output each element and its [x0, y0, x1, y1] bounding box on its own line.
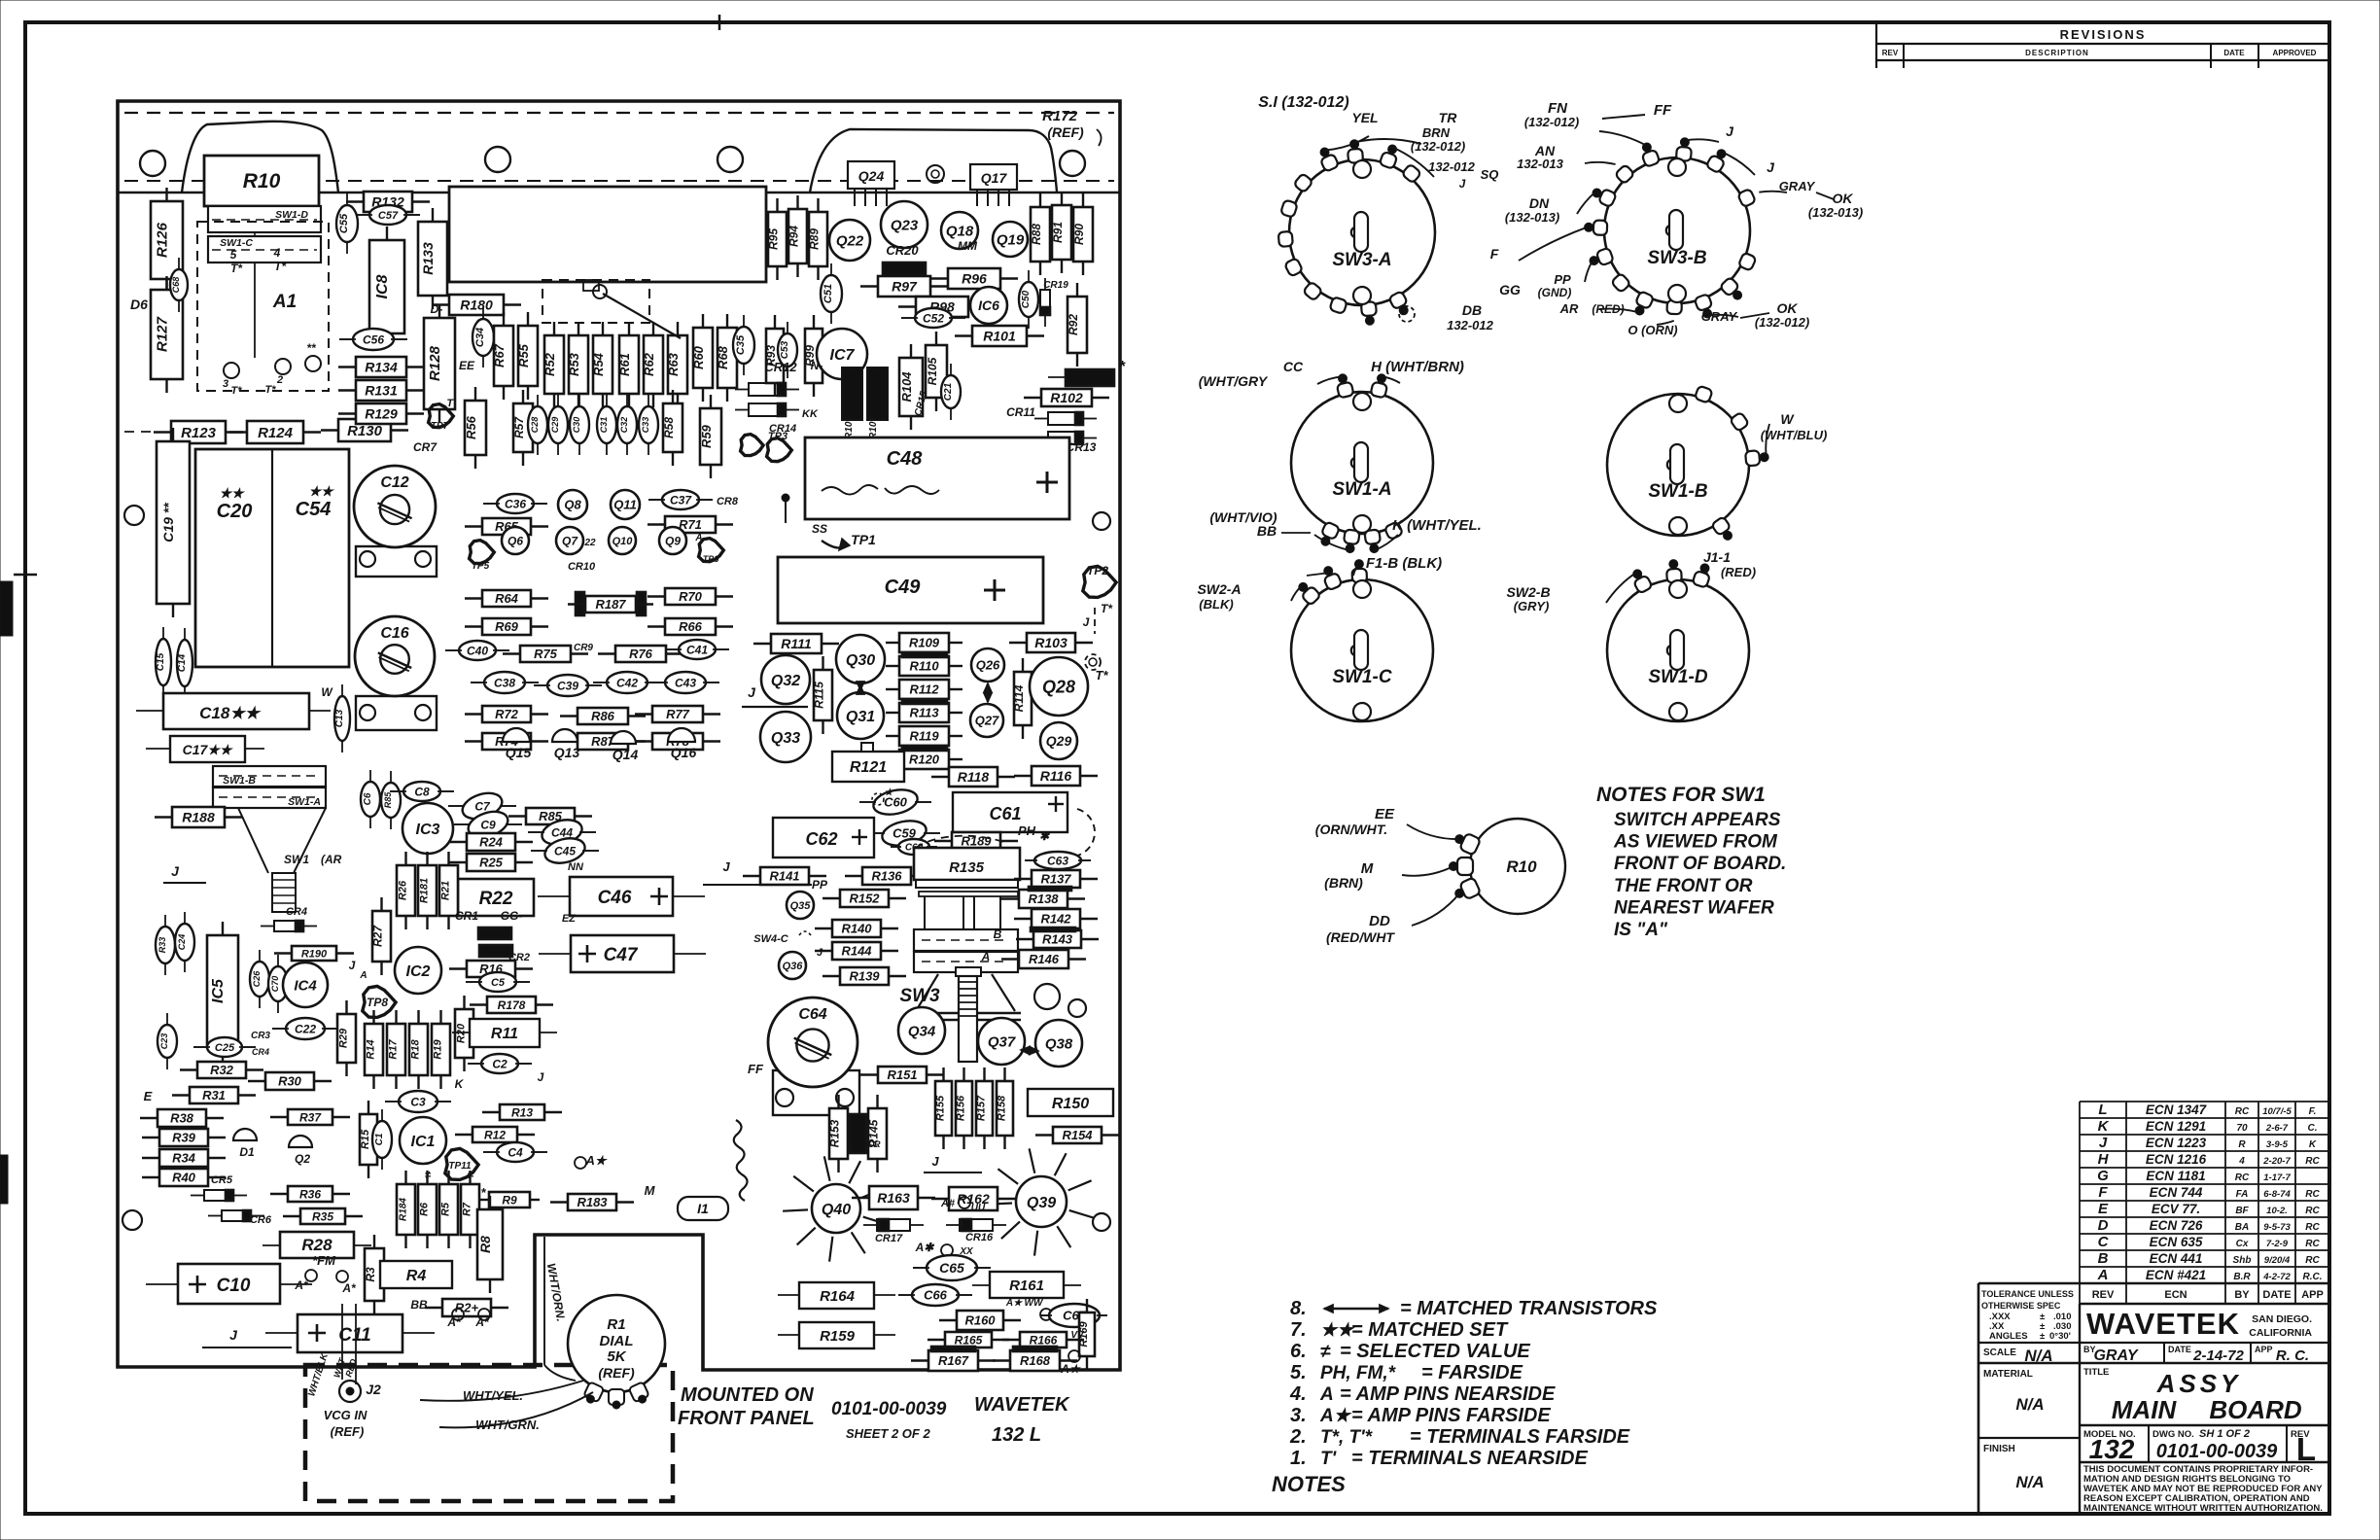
svg-text:IC1: IC1 — [411, 1134, 436, 1150]
svg-text:R.C.: R.C. — [2303, 1272, 2323, 1282]
svg-text:J: J — [1767, 159, 1775, 175]
svg-text:2-14-72: 2-14-72 — [2192, 1347, 2244, 1364]
svg-text:SWITCH APPEARS: SWITCH APPEARS — [1614, 810, 1781, 830]
svg-text:R104: R104 — [899, 371, 914, 402]
svg-text:M: M — [645, 1183, 656, 1198]
svg-text:WAVETEK: WAVETEK — [974, 1394, 1070, 1416]
svg-text:DB: DB — [1462, 302, 1482, 318]
svg-text:RC: RC — [2305, 1156, 2320, 1167]
svg-text:GG-: GG- — [501, 909, 523, 923]
svg-text:R38: R38 — [170, 1111, 194, 1126]
svg-text:R143: R143 — [1042, 932, 1073, 947]
svg-text:C6: C6 — [363, 792, 373, 805]
svg-text:SW1-B: SW1-B — [223, 775, 256, 787]
svg-text:R129: R129 — [365, 406, 398, 422]
svg-text:C31: C31 — [599, 417, 609, 434]
svg-text:PH, FM,*: PH, FM,* — [1320, 1363, 1397, 1383]
svg-text:R31: R31 — [202, 1088, 226, 1102]
svg-text:C.: C. — [2308, 1123, 2318, 1134]
svg-text:R130: R130 — [347, 423, 383, 439]
svg-text:C51: C51 — [822, 284, 834, 303]
svg-text:C17★★: C17★★ — [183, 742, 234, 757]
svg-text:R6: R6 — [419, 1202, 431, 1216]
svg-text:R68: R68 — [716, 345, 730, 369]
svg-text:R62: R62 — [642, 352, 656, 376]
svg-text:132 L: 132 L — [992, 1424, 1041, 1446]
svg-text:Q33: Q33 — [771, 730, 800, 747]
svg-text:REV: REV — [2092, 1289, 2115, 1301]
svg-text:SAN DIEGO.: SAN DIEGO. — [2252, 1313, 2312, 1325]
svg-text:= AMP PINS NEARSIDE: = AMP PINS NEARSIDE — [1340, 1383, 1556, 1405]
svg-text:BY: BY — [2234, 1289, 2250, 1301]
svg-text:Q39: Q39 — [1027, 1195, 1056, 1211]
svg-text:C47: C47 — [604, 945, 639, 965]
svg-text:R36: R36 — [299, 1187, 321, 1201]
svg-text:R34: R34 — [172, 1151, 196, 1166]
svg-text:ECN 1216: ECN 1216 — [2146, 1152, 2207, 1167]
svg-text:CR6: CR6 — [250, 1214, 272, 1226]
svg-text:(132-012): (132-012) — [1755, 315, 1809, 330]
svg-text:132-013: 132-013 — [1517, 157, 1563, 171]
svg-text:C34: C34 — [474, 328, 486, 347]
svg-text:≠: ≠ — [425, 1170, 432, 1181]
svg-text:TOLERANCE UNLESS: TOLERANCE UNLESS — [1981, 1289, 2074, 1299]
svg-text:A1: A1 — [272, 292, 297, 312]
svg-text:R67: R67 — [492, 343, 507, 367]
svg-text:MOUNTED ON: MOUNTED ON — [681, 1384, 814, 1406]
svg-text:132: 132 — [2089, 1434, 2135, 1464]
svg-text:R163: R163 — [877, 1190, 910, 1206]
svg-text:SQ: SQ — [1481, 167, 1499, 182]
svg-text:KK: KK — [802, 408, 819, 420]
svg-text:C11: C11 — [338, 1325, 370, 1346]
svg-text:3.: 3. — [1290, 1405, 1307, 1426]
svg-text:J: J — [1459, 177, 1466, 191]
svg-text:J: J — [722, 859, 730, 874]
svg-text:7.: 7. — [1290, 1319, 1307, 1341]
svg-text:C12: C12 — [380, 474, 408, 491]
svg-text:(WHT/GRY: (WHT/GRY — [1199, 373, 1269, 389]
svg-text:RC: RC — [2305, 1255, 2320, 1266]
svg-text:J: J — [931, 1154, 939, 1169]
svg-text:SW1-D: SW1-D — [1648, 667, 1708, 687]
svg-text:C49: C49 — [885, 577, 922, 598]
svg-text:SS: SS — [812, 522, 827, 536]
svg-text:4-2-72: 4-2-72 — [2262, 1272, 2291, 1282]
svg-text:R113: R113 — [909, 706, 939, 720]
svg-text:R3: R3 — [364, 1267, 377, 1282]
svg-text:C56: C56 — [363, 332, 384, 346]
svg-text:C19 **: C19 ** — [160, 503, 176, 542]
svg-text:Q10: Q10 — [612, 536, 634, 547]
svg-text:R91: R91 — [1051, 222, 1065, 243]
svg-text:R5: R5 — [440, 1202, 452, 1216]
svg-text:C68: C68 — [171, 277, 181, 294]
svg-text:SW1: SW1 — [284, 853, 309, 866]
svg-text:AR: AR — [1559, 301, 1579, 316]
svg-text:10/7/-5: 10/7/-5 — [2262, 1106, 2292, 1117]
svg-text:1-17-7: 1-17-7 — [2263, 1172, 2291, 1183]
svg-text:R11: R11 — [491, 1026, 518, 1042]
svg-text:C20: C20 — [217, 501, 253, 522]
svg-text:IC8: IC8 — [374, 274, 391, 298]
svg-text:R1: R1 — [607, 1316, 625, 1333]
svg-text:GRAY: GRAY — [2093, 1347, 2138, 1364]
svg-text:R22: R22 — [479, 889, 513, 909]
svg-text:N/A: N/A — [2015, 1395, 2044, 1414]
svg-text:C50: C50 — [1021, 290, 1032, 308]
svg-text:TP3: TP3 — [768, 431, 787, 442]
svg-text:R159: R159 — [820, 1328, 856, 1345]
svg-text:BB: BB — [1257, 523, 1277, 539]
svg-text:C46: C46 — [598, 888, 632, 908]
svg-text:R76: R76 — [629, 647, 653, 661]
svg-text:C10: C10 — [217, 1276, 251, 1296]
svg-text:CR10: CR10 — [568, 561, 596, 573]
svg-text:A: A — [2097, 1267, 2109, 1283]
svg-text:T*: T* — [265, 384, 277, 396]
svg-text:R144: R144 — [841, 944, 872, 959]
svg-text:WHT/YEL.: WHT/YEL. — [463, 1388, 523, 1403]
svg-text:Q13: Q13 — [554, 745, 580, 760]
svg-text:CR20: CR20 — [886, 243, 919, 258]
svg-text:R7: R7 — [462, 1202, 473, 1216]
svg-text:ECV 77.: ECV 77. — [2152, 1202, 2200, 1216]
svg-text:R187: R187 — [595, 597, 626, 612]
svg-text:CR11: CR11 — [1006, 405, 1035, 419]
svg-text:R139: R139 — [849, 969, 880, 984]
svg-text:Q2: Q2 — [295, 1152, 310, 1166]
svg-text:C38: C38 — [494, 676, 515, 689]
svg-text:RC: RC — [2305, 1239, 2320, 1249]
svg-text:Q34: Q34 — [908, 1023, 936, 1039]
svg-text:★★: ★★ — [219, 485, 246, 501]
svg-text:2.: 2. — [1289, 1426, 1307, 1448]
svg-text:5K: 5K — [607, 1348, 626, 1365]
svg-text:R97: R97 — [892, 279, 918, 295]
svg-text:RC: RC — [2235, 1172, 2250, 1183]
svg-text:Q11: Q11 — [613, 498, 637, 512]
svg-text:J: J — [748, 684, 756, 700]
svg-text:ECN 1223: ECN 1223 — [2146, 1136, 2207, 1150]
svg-text:R166: R166 — [1030, 1333, 1058, 1347]
svg-text:SW1-B: SW1-B — [1648, 481, 1708, 502]
svg-text:R137: R137 — [1040, 872, 1071, 887]
svg-text:R21: R21 — [440, 881, 452, 900]
svg-text:C14: C14 — [177, 653, 188, 672]
svg-text:BB: BB — [410, 1298, 428, 1312]
svg-text:R63: R63 — [666, 352, 681, 376]
svg-text:R70: R70 — [679, 589, 703, 604]
svg-text:ECN 726: ECN 726 — [2150, 1218, 2203, 1233]
svg-text:CR3: CR3 — [251, 1031, 270, 1041]
svg-text:Cx: Cx — [2236, 1239, 2249, 1249]
svg-text:B.R: B.R — [2233, 1272, 2251, 1282]
svg-text:8.: 8. — [1290, 1298, 1307, 1319]
svg-text:Q29: Q29 — [1046, 733, 1072, 749]
svg-text:C45: C45 — [554, 844, 576, 857]
svg-text:CR5: CR5 — [211, 1174, 233, 1186]
svg-text:SW1-C: SW1-C — [1332, 667, 1392, 687]
svg-text:C4: C4 — [507, 1145, 523, 1159]
svg-text:K (WHT/YEL.: K (WHT/YEL. — [1392, 517, 1482, 534]
svg-text:NOTES FOR SW1: NOTES FOR SW1 — [1596, 784, 1766, 806]
svg-text:T*, T'*: T*, T'* — [1320, 1427, 1374, 1448]
svg-text:R120: R120 — [909, 752, 940, 767]
svg-text:R69: R69 — [495, 619, 519, 634]
svg-text:5: 5 — [230, 248, 237, 262]
svg-text:APP: APP — [2301, 1289, 2324, 1301]
svg-text:(REF): (REF) — [331, 1424, 365, 1439]
svg-text:SW3-A: SW3-A — [1332, 250, 1391, 270]
svg-text:R158: R158 — [997, 1095, 1008, 1121]
svg-text:Q27: Q27 — [975, 714, 999, 728]
svg-text:*: * — [1119, 359, 1126, 375]
svg-text:C32: C32 — [619, 417, 629, 434]
svg-text:2-6-7: 2-6-7 — [2265, 1123, 2289, 1134]
svg-text:R126: R126 — [155, 222, 171, 258]
svg-text:R154: R154 — [1062, 1128, 1093, 1142]
svg-text:= MATCHED TRANSISTORS: = MATCHED TRANSISTORS — [1400, 1298, 1658, 1319]
svg-text:R156: R156 — [956, 1095, 967, 1121]
svg-text:R77: R77 — [666, 707, 690, 721]
svg-text:ECN 1347: ECN 1347 — [2146, 1102, 2208, 1117]
svg-text:R90: R90 — [1072, 224, 1086, 245]
svg-text:R105: R105 — [926, 357, 939, 385]
svg-text:T': T' — [446, 398, 456, 409]
svg-text:R128: R128 — [427, 345, 443, 381]
svg-text:R19: R19 — [433, 1039, 444, 1060]
svg-text:SW3: SW3 — [899, 986, 940, 1006]
svg-text:A: A — [981, 950, 991, 963]
svg-text:= FARSIDE: = FARSIDE — [1421, 1362, 1523, 1383]
svg-text:R14: R14 — [366, 1039, 377, 1059]
svg-text:BRN: BRN — [1422, 125, 1451, 140]
svg-text:R96: R96 — [962, 271, 987, 287]
svg-text:I1: I1 — [697, 1201, 709, 1216]
svg-text:C8: C8 — [414, 785, 430, 798]
svg-text:R52: R52 — [542, 352, 557, 376]
svg-text:C21: C21 — [943, 382, 954, 401]
svg-text:R25: R25 — [479, 856, 504, 870]
svg-text:Q18: Q18 — [946, 223, 974, 239]
svg-text:Q32: Q32 — [771, 673, 800, 689]
svg-text:C33: C33 — [641, 417, 650, 434]
svg-text:(132-012): (132-012) — [1524, 115, 1579, 129]
svg-text:A★: A★ — [1060, 1362, 1082, 1376]
svg-text:Q26: Q26 — [976, 658, 1000, 673]
svg-text:G: G — [2097, 1168, 2109, 1184]
svg-text:R181: R181 — [419, 878, 431, 903]
svg-text:C25: C25 — [215, 1042, 235, 1054]
svg-text:R134: R134 — [365, 360, 398, 375]
svg-text:E: E — [144, 1089, 153, 1103]
svg-text:C61: C61 — [989, 804, 1021, 823]
svg-text:CR4: CR4 — [252, 1047, 269, 1057]
svg-text:R29: R29 — [338, 1028, 350, 1048]
svg-text:OK: OK — [1833, 191, 1854, 206]
svg-text:A: A — [1319, 1384, 1334, 1405]
svg-text:3: 3 — [223, 378, 228, 390]
svg-text:B: B — [2098, 1250, 2109, 1267]
svg-text:= TERMINALS FARSIDE: = TERMINALS FARSIDE — [1410, 1426, 1630, 1448]
svg-text:Q19: Q19 — [997, 231, 1025, 248]
svg-text:R72: R72 — [495, 707, 519, 721]
svg-text:FF: FF — [748, 1062, 764, 1076]
svg-text:IS "A": IS "A" — [1614, 920, 1668, 940]
svg-text:DATE: DATE — [2223, 49, 2245, 57]
svg-text:132-012: 132-012 — [1428, 159, 1475, 174]
svg-text:R59: R59 — [699, 424, 714, 448]
svg-text:R: R — [2238, 1139, 2246, 1150]
svg-text:SW1-A: SW1-A — [1332, 479, 1391, 500]
svg-text:R155: R155 — [935, 1095, 947, 1121]
svg-text:TP6: TP6 — [703, 554, 720, 564]
svg-text:PP: PP — [1554, 272, 1571, 287]
svg-text:CR1: CR1 — [455, 909, 478, 923]
svg-text:FA: FA — [2236, 1189, 2249, 1200]
svg-text:SW2-B: SW2-B — [1506, 584, 1550, 600]
svg-text:R86: R86 — [591, 709, 615, 723]
svg-text:CR12: CR12 — [764, 360, 797, 374]
svg-text:C3: C3 — [410, 1095, 426, 1108]
svg-text:R92: R92 — [1067, 314, 1080, 335]
svg-text:Q40: Q40 — [822, 1202, 851, 1218]
svg-text:4.: 4. — [1289, 1383, 1307, 1405]
svg-text:Q37: Q37 — [988, 1033, 1016, 1050]
svg-text:R12: R12 — [484, 1128, 506, 1141]
svg-text:Q9: Q9 — [665, 534, 681, 547]
svg-text:FRONT PANEL: FRONT PANEL — [678, 1408, 815, 1429]
svg-text:NEAREST WAFER: NEAREST WAFER — [1614, 897, 1774, 918]
svg-text:(BRN): (BRN) — [1324, 875, 1363, 891]
svg-text:R140: R140 — [841, 922, 872, 936]
svg-text:SW2-A: SW2-A — [1197, 581, 1241, 597]
svg-text:R4: R4 — [406, 1268, 427, 1284]
svg-text:R109: R109 — [909, 636, 940, 650]
svg-text:FINISH: FINISH — [1983, 1444, 2015, 1454]
svg-text:APP: APP — [2255, 1345, 2273, 1354]
svg-text:R180: R180 — [460, 297, 493, 313]
svg-text:ANGLES: ANGLES — [1989, 1331, 2028, 1342]
svg-text:PH: PH — [1018, 823, 1036, 838]
svg-text:R13: R13 — [511, 1105, 533, 1119]
svg-text:R118: R118 — [958, 769, 990, 785]
svg-text:UU: UU — [971, 1203, 986, 1213]
svg-text:A*: A* — [474, 1315, 490, 1329]
svg-text:R30: R30 — [278, 1074, 302, 1089]
svg-text:SW4-C: SW4-C — [753, 933, 789, 945]
svg-text:CR8: CR8 — [717, 496, 739, 507]
svg-text:R88: R88 — [1030, 224, 1043, 245]
svg-text:R165: R165 — [955, 1333, 983, 1347]
svg-text:F: F — [1490, 246, 1499, 262]
svg-text:(132-013): (132-013) — [1808, 205, 1863, 220]
svg-text:OK: OK — [1777, 300, 1799, 316]
svg-text:J: J — [1726, 123, 1734, 139]
svg-text:R27: R27 — [371, 925, 385, 947]
svg-text:S.I (132-012): S.I (132-012) — [1258, 94, 1348, 111]
svg-text:C37: C37 — [670, 493, 692, 507]
svg-text:VV: VV — [1070, 1330, 1085, 1341]
svg-text:N/A: N/A — [2024, 1347, 2052, 1365]
svg-text:= AMP PINS FARSIDE: = AMP PINS FARSIDE — [1351, 1405, 1551, 1426]
svg-text:J2: J2 — [366, 1382, 381, 1397]
svg-text:TP1: TP1 — [851, 532, 876, 547]
svg-text:R119: R119 — [909, 729, 939, 744]
svg-text:9/20/4: 9/20/4 — [2264, 1255, 2291, 1266]
svg-text:C55: C55 — [338, 213, 350, 233]
svg-text:FF: FF — [1654, 102, 1672, 119]
svg-text:GG: GG — [1499, 282, 1521, 297]
svg-text:L: L — [2098, 1102, 2107, 1118]
svg-text:R184: R184 — [399, 1198, 409, 1221]
svg-text:A: A — [359, 970, 367, 981]
svg-text:C63: C63 — [1047, 854, 1068, 867]
svg-text:T*: T* — [230, 262, 243, 275]
svg-text:Q23: Q23 — [891, 217, 919, 233]
svg-text:6.: 6. — [1290, 1341, 1307, 1362]
svg-text:(RED/WHT: (RED/WHT — [1326, 929, 1395, 945]
svg-text:C5: C5 — [491, 977, 506, 989]
svg-text:RC: RC — [2305, 1189, 2320, 1200]
svg-text:J: J — [229, 1327, 238, 1343]
svg-text:R102: R102 — [1050, 390, 1083, 405]
svg-text:R151: R151 — [887, 1067, 917, 1082]
svg-text:WHT/GRN.: WHT/GRN. — [475, 1417, 540, 1432]
svg-text:N/A: N/A — [2015, 1473, 2044, 1491]
svg-text:TP8: TP8 — [367, 996, 388, 1009]
svg-text:J: J — [349, 959, 356, 972]
svg-text:ECN: ECN — [2164, 1289, 2187, 1301]
svg-text:C62: C62 — [805, 829, 837, 849]
svg-text:R95: R95 — [767, 228, 781, 250]
svg-text:2: 2 — [276, 374, 283, 386]
svg-text:C64: C64 — [798, 1006, 826, 1023]
svg-text:BOARD: BOARD — [2209, 1395, 2302, 1424]
svg-text:REVISIONS: REVISIONS — [2060, 27, 2147, 42]
svg-text:R115: R115 — [813, 682, 826, 709]
svg-text:FRONT OF BOARD.: FRONT OF BOARD. — [1614, 854, 1786, 874]
svg-text:R10: R10 — [243, 170, 281, 192]
svg-text:C66: C66 — [924, 1288, 948, 1303]
svg-text:±: ± — [2040, 1331, 2045, 1342]
svg-text:RC: RC — [2235, 1106, 2250, 1117]
svg-text:T*: T* — [1101, 602, 1113, 615]
svg-text:GRAY: GRAY — [1701, 309, 1738, 324]
svg-text:R153: R153 — [828, 1119, 842, 1147]
svg-text:Q24: Q24 — [858, 168, 885, 184]
svg-text:(WHT/BLU): (WHT/BLU) — [1761, 428, 1828, 442]
svg-text:3-9-5: 3-9-5 — [2266, 1139, 2289, 1150]
svg-text:D6: D6 — [130, 297, 148, 312]
svg-text:4: 4 — [273, 246, 281, 260]
svg-text:R131: R131 — [365, 383, 398, 399]
svg-text:C16: C16 — [380, 625, 408, 642]
svg-text:A✱: A✱ — [915, 1241, 936, 1254]
svg-text:R167: R167 — [938, 1353, 969, 1368]
svg-text:R189: R189 — [961, 834, 992, 849]
svg-text:= TERMINALS NEARSIDE: = TERMINALS NEARSIDE — [1351, 1448, 1588, 1469]
svg-text:F1-B (BLK): F1-B (BLK) — [1366, 555, 1442, 572]
svg-text:R107: R107 — [868, 416, 879, 439]
svg-text:Q6: Q6 — [507, 534, 523, 547]
svg-text:R32: R32 — [210, 1063, 234, 1077]
svg-text:AS VIEWED FROM: AS VIEWED FROM — [1613, 832, 1778, 853]
svg-text:R150: R150 — [1052, 1096, 1089, 1112]
svg-text:R136: R136 — [871, 869, 902, 884]
svg-text:R116: R116 — [1040, 768, 1072, 784]
